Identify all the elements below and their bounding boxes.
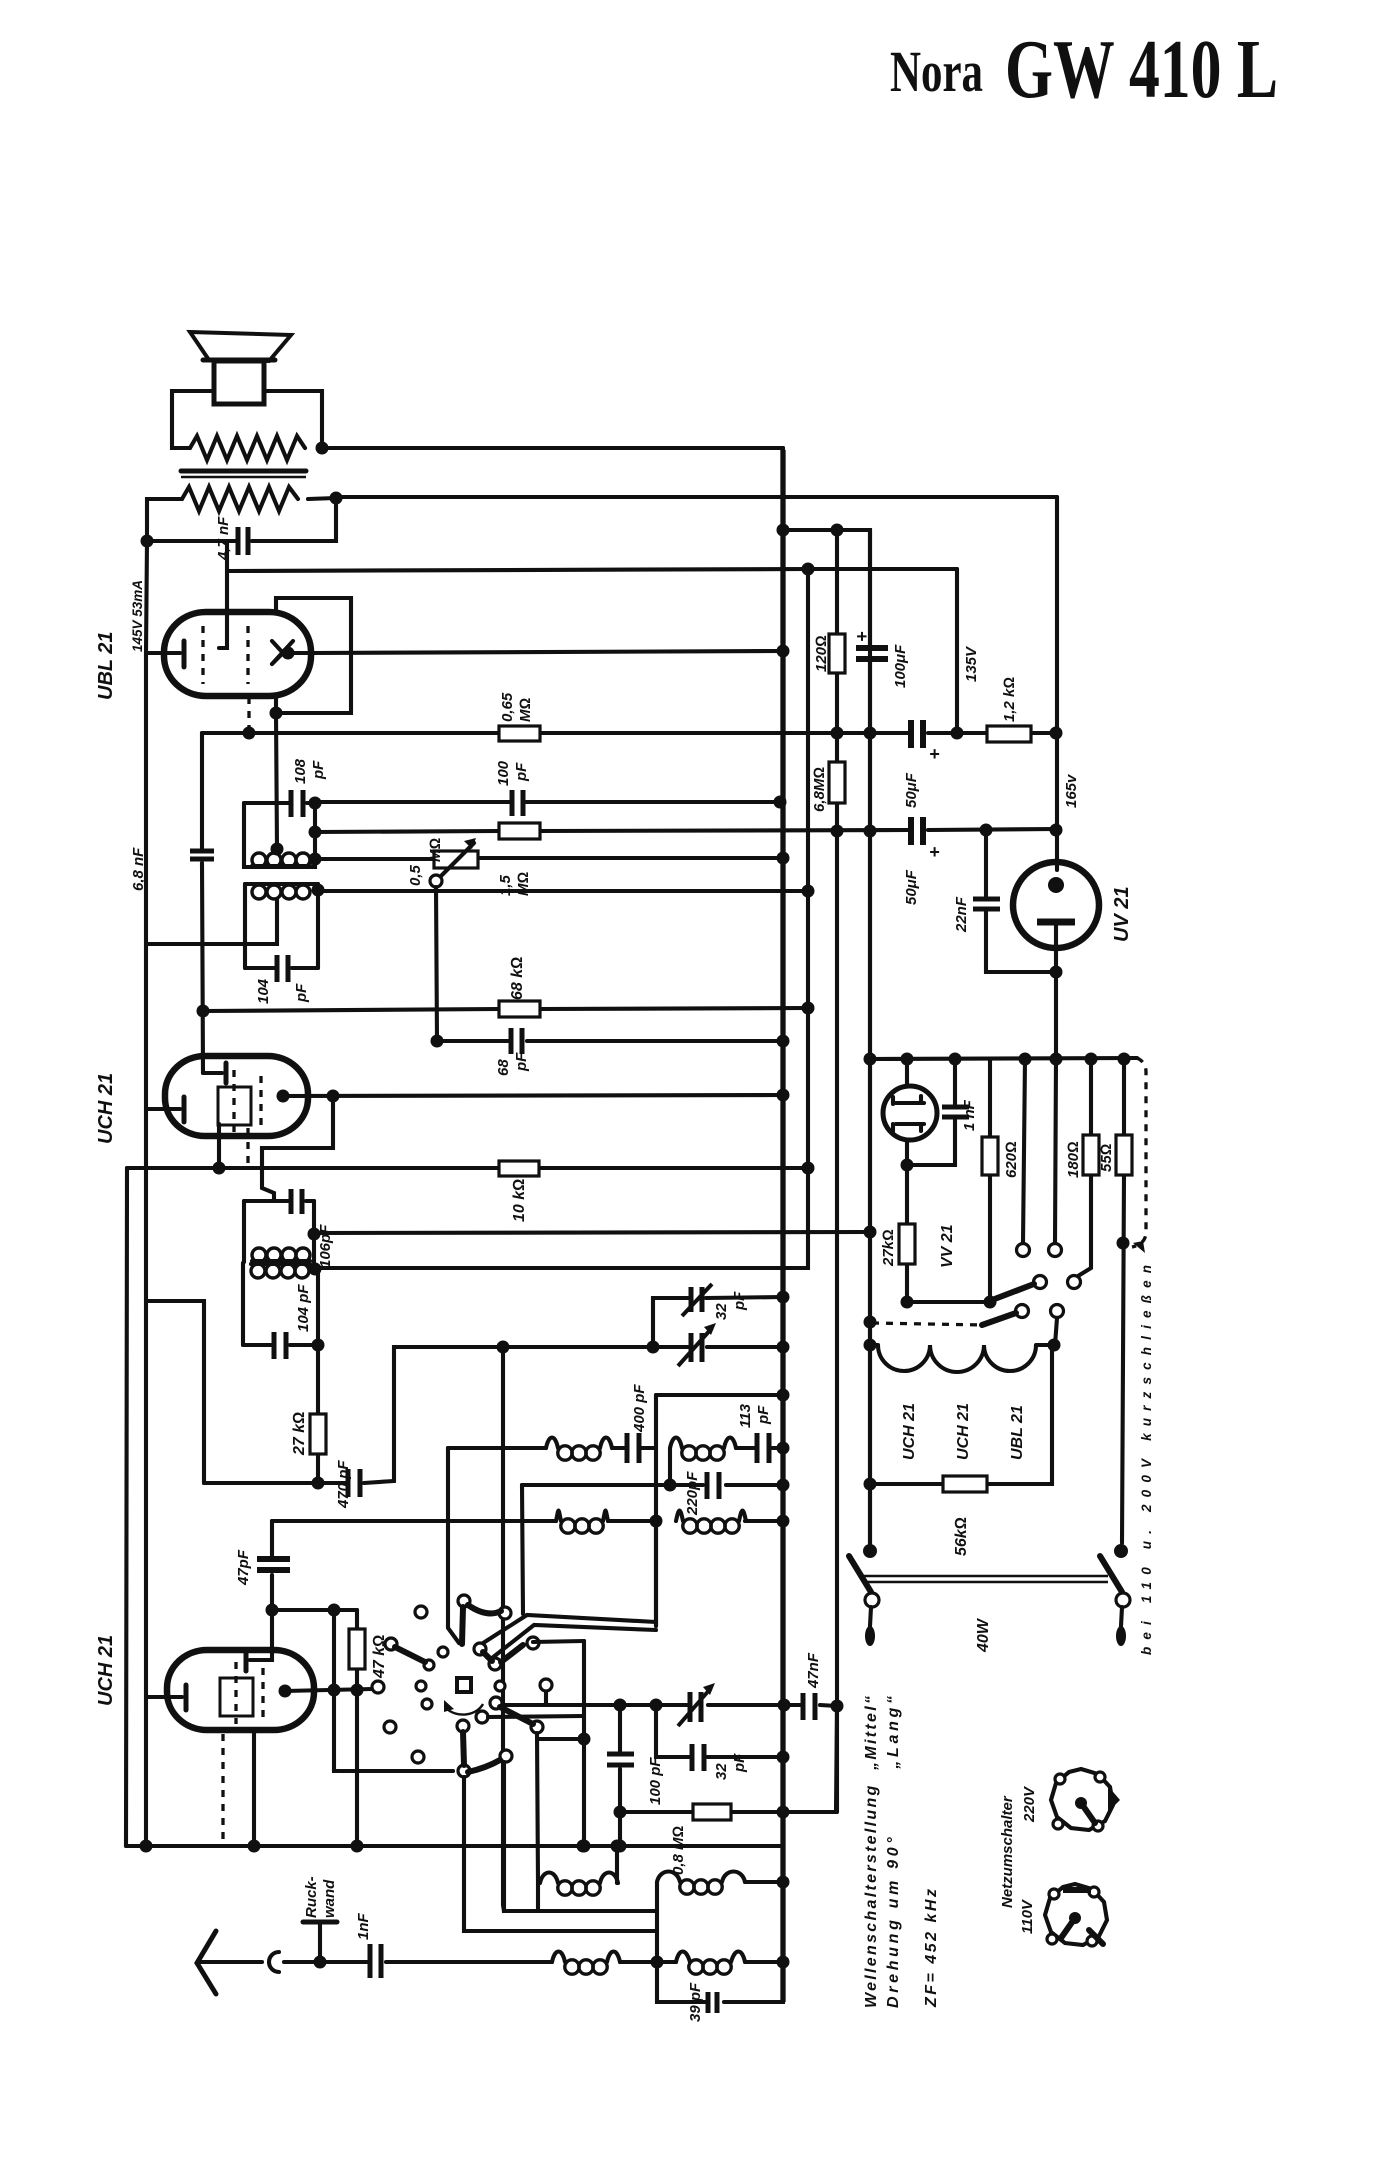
potentiometer wiper circle xyxy=(430,875,442,887)
wire y1485 xyxy=(522,1483,783,1487)
node y1347 x653 xyxy=(647,1341,660,1354)
wire y1448 coil row xyxy=(448,1446,656,1450)
tube VV21 ballast envelope xyxy=(883,1086,937,1140)
node x219 y1168 xyxy=(213,1162,226,1175)
svg-text:165v: 165v xyxy=(1063,773,1080,808)
switch contact c9 xyxy=(495,1681,505,1691)
node mains right top xyxy=(1114,1544,1128,1558)
switch contact c20 xyxy=(531,1721,543,1733)
node x837 y831 xyxy=(831,825,844,838)
coil L4 loops xyxy=(676,1511,683,1522)
selector contact D xyxy=(1068,1276,1081,1289)
wire anode long y569 xyxy=(227,569,957,571)
wire grid dash below tube1 xyxy=(246,1128,249,1166)
transformer core lines xyxy=(181,469,306,474)
node y1059 x870 xyxy=(864,1053,877,1066)
capacitor 104pF lower xyxy=(274,1332,286,1359)
node x1124 y1243 xyxy=(1117,1237,1130,1250)
resistor 620Ohm xyxy=(988,1059,992,1302)
node IFT2 bottom xyxy=(312,1339,325,1352)
node y1521 bus xyxy=(777,1515,790,1528)
node y1345 x870 xyxy=(864,1339,877,1352)
wire x1056 selector xyxy=(1055,1059,1056,1243)
UCH21-2 below dashes xyxy=(221,1734,224,1844)
mains switch left pin xyxy=(870,1607,871,1626)
node y1059 x1124 xyxy=(1118,1053,1131,1066)
wire x957 anode drop xyxy=(955,569,959,733)
VV21 filament bars xyxy=(893,1096,924,1131)
wire 4,7nF anode branch xyxy=(225,541,229,571)
node IFT1 top right xyxy=(309,797,322,810)
resistor 47kOhm xyxy=(355,1610,359,1846)
node x357 y1690 xyxy=(351,1684,364,1697)
switch lever right-mid xyxy=(500,1707,533,1724)
wire bus x870 top xyxy=(868,530,872,1551)
Rueckwand terminal xyxy=(318,1925,322,1962)
node secondary-right junction xyxy=(330,492,343,505)
svg-text:UCH 21: UCH 21 xyxy=(95,1073,117,1144)
UBL21 shield box xyxy=(276,598,351,713)
node Rueckwand junction xyxy=(314,1956,327,1969)
svg-text:47nF: 47nF xyxy=(805,1652,822,1689)
node x437 y1041 xyxy=(431,1035,444,1048)
node x837 y733 xyxy=(831,727,844,740)
node y1059 x1091 xyxy=(1085,1053,1098,1066)
wire transformer primary loop left xyxy=(172,391,214,448)
node x1056 y733 xyxy=(1050,727,1063,740)
UCH21-1 top grid lead xyxy=(203,1071,222,1075)
svg-text:GW 410 L: GW 410 L xyxy=(1005,23,1278,116)
wire y1168 10k rail xyxy=(127,1166,808,1170)
svg-text:Drehung um 90° „Lang“: Drehung um 90° „Lang“ xyxy=(885,1696,902,2008)
capacitor 47pF xyxy=(257,1559,290,1570)
svg-text:ZF= 452 kHz: ZF= 452 kHz xyxy=(923,1889,940,2008)
svg-text:47pF: 47pF xyxy=(235,1549,252,1586)
wire x522 drop xyxy=(522,1485,523,1614)
UCH21-2 cathode drop xyxy=(252,1732,256,1846)
plug 110V xyxy=(1045,1884,1107,1946)
wire y1041 xyxy=(437,1039,783,1043)
svg-text:68: 68 xyxy=(495,1059,512,1076)
capacitor 1nF antenna xyxy=(370,1944,381,1978)
potentiometer 0,5MOhm xyxy=(434,851,478,868)
node shield box bottom xyxy=(270,707,283,720)
wire y1739 xyxy=(538,1737,584,1741)
capacitor 106pF xyxy=(291,1189,302,1214)
wire y1610 xyxy=(272,1608,357,1612)
capacitor 68pF xyxy=(511,1028,522,1054)
node y1705 bus xyxy=(778,1699,791,1712)
wire grid return x204 xyxy=(148,1301,204,1483)
node y1705 x837 xyxy=(831,1700,844,1713)
node y1812 bus xyxy=(777,1806,790,1819)
node y1232 xyxy=(864,1226,877,1239)
wire x584 vertical xyxy=(582,1641,586,1846)
node y1059 x907 xyxy=(901,1053,914,1066)
wire UCH21-1 below: cathode drop xyxy=(217,1124,221,1168)
svg-text:1 nF: 1 nF xyxy=(961,1099,978,1131)
wire y1484 xyxy=(870,1345,1052,1484)
wire y1483 xyxy=(204,1347,503,1483)
IFT1 secondary box xyxy=(245,884,318,968)
wire x657 vertical xyxy=(655,1882,659,1962)
node y1008 bus xyxy=(802,1002,815,1015)
UCH21-2 grid box xyxy=(220,1678,253,1716)
IFT1 secondary coil loops xyxy=(252,885,266,899)
node y891 bus xyxy=(802,885,815,898)
node y1302 x907 xyxy=(901,1296,914,1309)
node x957 y733 xyxy=(951,727,964,740)
mains switch right lever xyxy=(1100,1556,1122,1592)
node y972 x1056 xyxy=(1050,966,1063,979)
switch contact c8 xyxy=(416,1681,426,1691)
switch contact c1 xyxy=(415,1606,427,1618)
node y1848 x583 xyxy=(577,1840,590,1853)
wire y1812 xyxy=(620,1706,837,1812)
wire y497 heater feed xyxy=(336,495,1057,499)
switch V wires pair xyxy=(480,1615,656,1658)
switch contact c4 xyxy=(438,1647,448,1657)
mains switch left lever xyxy=(849,1556,871,1592)
svg-text:UCH 21: UCH 21 xyxy=(955,1403,972,1460)
node y1059 x1056 xyxy=(1050,1053,1063,1066)
node UCH21-1 right lead2 xyxy=(327,1090,340,1103)
switch contact c7 xyxy=(372,1681,384,1693)
mains coupling bar xyxy=(864,1575,1108,1577)
wire bus x837 xyxy=(835,530,839,1812)
UCH21-2 top grid bar xyxy=(244,1650,249,1671)
selector lever 1 xyxy=(992,1284,1034,1300)
selector contact C xyxy=(1034,1276,1047,1289)
capacitor 100uF xyxy=(856,648,888,659)
switch contact c10 xyxy=(540,1679,552,1691)
capacitor 50uF lower xyxy=(911,817,923,845)
svg-text:pF: pF xyxy=(513,1052,530,1072)
svg-text:UV 21: UV 21 xyxy=(1111,886,1133,942)
node x272 y1610 xyxy=(266,1604,279,1617)
node IFT2 low right xyxy=(309,1263,322,1276)
tube UY21 envelope xyxy=(1013,862,1099,948)
IFT2 upper box xyxy=(244,1201,314,1262)
UBL21 anode lead internal xyxy=(219,571,227,648)
svg-text:Ruck-: Ruck- xyxy=(303,1876,320,1918)
node y1059 x1025 xyxy=(1019,1053,1032,1066)
svg-text:+: + xyxy=(929,842,940,862)
svg-text:106pF: 106pF xyxy=(317,1224,334,1268)
wire switch drop x462 xyxy=(464,1777,657,1931)
svg-text:108: 108 xyxy=(292,758,309,784)
title Nora GW 410 L xyxy=(890,23,1278,116)
capacitor 39pF xyxy=(708,1992,717,2013)
resistor 0,8MOhm xyxy=(693,1804,731,1820)
coil L1 loops xyxy=(546,1438,558,1449)
wire y1521 coil row2 xyxy=(272,1519,783,1523)
svg-text:470 pF: 470 pF xyxy=(335,1460,352,1509)
svg-text:+: + xyxy=(852,631,872,642)
wire y891 xyxy=(318,889,808,893)
UY21 cathode bar xyxy=(1037,919,1075,926)
switch contact c6 xyxy=(424,1660,434,1670)
node y1705 x656 xyxy=(650,1699,663,1712)
mains switch right contact xyxy=(1116,1593,1130,1607)
node UCH21-2 anode xyxy=(279,1685,292,1698)
UCH21-1 grid box xyxy=(218,1087,251,1125)
wire x334 vertical xyxy=(334,1610,453,1771)
UCH21-1 cathode lead xyxy=(146,1107,180,1111)
node y1347 x503 xyxy=(497,1341,510,1354)
wire 22nF branch xyxy=(986,830,1056,972)
node y1846 x357 xyxy=(351,1840,364,1853)
wire VV21 bottom xyxy=(905,1140,909,1165)
IFT2 upper coil loops xyxy=(252,1248,266,1262)
node y1297 bus xyxy=(777,1291,790,1304)
switch contact c5 xyxy=(385,1638,397,1650)
node y1846 x584 xyxy=(578,1840,591,1853)
svg-text:68 kΩ: 68 kΩ xyxy=(509,957,526,1000)
node x146 y1846 xyxy=(140,1840,153,1853)
switch contact c2 xyxy=(458,1595,470,1607)
wire y1232 xyxy=(314,1232,870,1233)
node y1347 bus xyxy=(777,1341,790,1354)
node y1448 bus xyxy=(777,1442,790,1455)
selector contact A xyxy=(1017,1244,1030,1257)
node y858 bus xyxy=(777,852,790,865)
wire y1008 xyxy=(203,1008,808,1011)
node y1059 x955 xyxy=(949,1053,962,1066)
node x808 on anode wire xyxy=(802,563,815,576)
svg-text:UBL 21: UBL 21 xyxy=(95,631,117,700)
tube UBL21 envelope xyxy=(164,612,311,696)
svg-text:+: + xyxy=(929,744,940,764)
wire coilC left stub xyxy=(537,1733,538,1911)
svg-text:40W: 40W xyxy=(975,1617,992,1653)
resistor 55Ohm xyxy=(1122,1059,1124,1543)
wire contact F drop xyxy=(1055,1318,1057,1345)
UY21 anode dot xyxy=(1048,877,1064,893)
wire y1846 ground rail xyxy=(126,448,783,1846)
wire secondary right end xyxy=(308,498,336,499)
wire left rail x146 xyxy=(144,653,148,1846)
node IFT1 secondary top right xyxy=(312,884,325,897)
svg-text:104: 104 xyxy=(255,978,272,1004)
wire coil H with 113pF xyxy=(670,1448,783,1485)
switch contact c13 xyxy=(476,1711,488,1723)
switch contact c16 xyxy=(458,1765,470,1777)
svg-text:0,65: 0,65 xyxy=(499,692,516,722)
svg-text:6,8 nF: 6,8 nF xyxy=(130,847,147,891)
wire x503 long drop xyxy=(503,1347,504,1911)
switch lever top xyxy=(468,1605,501,1613)
svg-text:180Ω: 180Ω xyxy=(1065,1141,1082,1178)
wire y733 AVC rail xyxy=(202,731,1056,735)
UBL21 diode element xyxy=(272,641,308,664)
node y1323 x870 xyxy=(864,1316,877,1329)
node y1165 xyxy=(901,1159,914,1172)
node y1705 x620 xyxy=(614,1699,627,1712)
switch contact c14 xyxy=(457,1720,469,1732)
node y830 x986 xyxy=(980,824,993,837)
svg-text:pF: pF xyxy=(755,1405,772,1425)
wire x656 mid vertical xyxy=(654,1395,658,1626)
mains switch right pin xyxy=(1121,1607,1122,1626)
svg-text:MΩ: MΩ xyxy=(517,698,534,722)
wire grid tap y944 xyxy=(146,900,277,944)
svg-text:6,8MΩ: 6,8MΩ xyxy=(811,767,828,812)
switch lever bottom xyxy=(463,1732,464,1765)
wire grid dashed below tube xyxy=(247,697,250,731)
svg-text:Wellenschalterstellung „Mitte: Wellenschalterstellung „Mittel“ xyxy=(863,1696,880,2008)
wire staircase x333 xyxy=(262,1096,333,1201)
node UBL21 diode junction xyxy=(282,647,295,660)
wire wiper vertical x437 xyxy=(436,887,437,1041)
resistor 10kOhm xyxy=(499,1161,539,1176)
coil F loops xyxy=(676,1952,690,1963)
selector contact F xyxy=(1051,1305,1064,1318)
wire x656 corner to switch xyxy=(654,1521,658,1626)
coil L2 loops xyxy=(670,1438,682,1449)
wire diode output y653 xyxy=(311,651,783,653)
wire cathode rail left vertical xyxy=(146,541,147,653)
UCH21-1 grid dashes xyxy=(232,1070,235,1132)
svg-text:MΩ: MΩ xyxy=(427,838,444,862)
node IFT1 tap xyxy=(271,843,284,856)
IFT1 primary coil loops xyxy=(252,853,266,867)
capacitor 400pF xyxy=(627,1433,639,1463)
UBL21 grid dashes xyxy=(201,626,204,684)
wire UBL21 cathode lead xyxy=(146,651,180,655)
switch contact c11 xyxy=(422,1699,432,1709)
resistor 180Ohm xyxy=(1078,1059,1091,1276)
plug 220V xyxy=(1051,1769,1120,1831)
svg-text:113: 113 xyxy=(737,1403,754,1428)
wire UY21 cathode down xyxy=(1054,922,1058,1059)
switch contact cV1 xyxy=(474,1643,486,1655)
UCH21-2 grid dashes xyxy=(234,1662,237,1724)
node UCH21-1 anode xyxy=(277,1090,290,1103)
wire VV21 top xyxy=(905,1059,909,1086)
coil D loops xyxy=(657,1872,680,1883)
capacitor 100pF osc xyxy=(618,1705,622,1846)
node IFT2 mid right xyxy=(308,1228,321,1241)
svg-text:120Ω: 120Ω xyxy=(813,635,830,672)
wire 39pF loop xyxy=(657,1962,783,2002)
node y1846 x620 xyxy=(614,1840,627,1853)
wire UY21 feed x1057 xyxy=(1055,497,1059,870)
wire x202 vertical xyxy=(202,733,203,1073)
resistor 0,65MOhm xyxy=(499,726,540,741)
wire y858 pot row xyxy=(315,858,783,859)
switch lever top-left vertical xyxy=(462,1607,463,1644)
node x334 y1691 xyxy=(328,1684,341,1697)
capacitor 100pF xyxy=(512,790,523,816)
svg-text:220pF: 220pF xyxy=(684,1471,701,1516)
tube UCH21 second envelope xyxy=(167,1650,314,1730)
resistor 27kOhm xyxy=(316,1345,320,1483)
node y1302 x990 xyxy=(984,1296,997,1309)
transformer T primary winding zigzag xyxy=(190,436,305,460)
node 27k bottom xyxy=(312,1477,325,1490)
resistor 27kOhm right xyxy=(905,1165,909,1302)
wire y1302 xyxy=(907,1300,990,1304)
svg-text:620Ω: 620Ω xyxy=(1003,1141,1020,1178)
wire dashed selector y1324 xyxy=(872,1323,982,1325)
wire y1347 varcap row xyxy=(503,1345,783,1349)
switch contact c17 xyxy=(527,1637,539,1649)
coil C loops xyxy=(540,1873,558,1884)
switch contact c12 xyxy=(384,1721,396,1733)
node y1485 bus xyxy=(777,1479,790,1492)
svg-text:27kΩ: 27kΩ xyxy=(880,1229,897,1267)
svg-text:32: 32 xyxy=(713,1763,730,1780)
node y530 x837 xyxy=(831,524,844,537)
switch contact c18 xyxy=(489,1658,501,1670)
node y1345 x1054 xyxy=(1048,1339,1061,1352)
node IFT1 mid right xyxy=(309,826,322,839)
wire screen vertical x276 xyxy=(276,713,277,849)
IFT1 primary box xyxy=(244,803,315,867)
svg-text:VV 21: VV 21 xyxy=(939,1224,956,1268)
wire 4,7nF left segment xyxy=(147,539,236,543)
node primary-right junction xyxy=(316,442,329,455)
tube UCH21 first envelope xyxy=(165,1056,308,1136)
node IFT1 bottom right xyxy=(309,853,322,866)
wire 47pF branch top xyxy=(250,1521,272,1660)
wire transformer primary loop right xyxy=(264,391,322,448)
svg-text:4,7 nF: 4,7 nF xyxy=(215,516,232,561)
switch contact c19 xyxy=(490,1697,502,1709)
node y802 bus xyxy=(774,796,787,809)
capacitor 220pF xyxy=(707,1472,719,1499)
capacitor 50uF upper xyxy=(911,720,923,748)
svg-text:100: 100 xyxy=(495,760,512,786)
wire heater rail y1059 xyxy=(870,1058,1137,1059)
wire secondary right drop xyxy=(252,498,336,541)
svg-text:pF: pF xyxy=(731,1291,748,1311)
antenna hook xyxy=(269,1952,279,1972)
wire y448 output xyxy=(322,446,783,450)
svg-text:145V 53mA: 145V 53mA xyxy=(130,580,145,652)
svg-text:32: 32 xyxy=(713,1303,730,1320)
node y1757 bus xyxy=(777,1751,790,1764)
wire dashed mains jumper xyxy=(1132,1058,1146,1247)
capacitor 47nF xyxy=(803,1693,815,1720)
node mains left top xyxy=(863,1544,877,1558)
UCH21-2 cathode lead xyxy=(146,1695,182,1699)
node y1962 x657 xyxy=(651,1956,664,1969)
wire main bus thick lower xyxy=(780,450,785,2002)
wire switch drop x506 xyxy=(504,1762,657,1911)
svg-text:39 pF: 39 pF xyxy=(687,1982,704,2022)
UBL21 cathode bar xyxy=(182,641,187,667)
node x334 y1610 xyxy=(328,1604,341,1617)
svg-text:pF: pF xyxy=(293,983,310,1003)
node y1882 bus xyxy=(777,1876,790,1889)
node x870 y831 xyxy=(864,825,877,838)
svg-text:1nF: 1nF xyxy=(355,1912,372,1940)
svg-text:220V: 220V xyxy=(1021,1785,1038,1823)
selector contact B xyxy=(1049,1244,1062,1257)
capacitor 108pF xyxy=(291,790,303,817)
resistor 1,5MOhm xyxy=(499,823,540,839)
IFT1 top edge with 108pF xyxy=(244,801,315,805)
svg-text:22nF: 22nF xyxy=(953,896,970,933)
resistor 120Ohm xyxy=(829,634,845,673)
svg-text:pF: pF xyxy=(513,762,530,782)
svg-text:56kΩ: 56kΩ xyxy=(953,1517,970,1556)
speaker horn mouth line xyxy=(203,358,275,363)
svg-text:Nora: Nora xyxy=(890,39,983,104)
wire coilC right stub xyxy=(615,1848,619,1883)
